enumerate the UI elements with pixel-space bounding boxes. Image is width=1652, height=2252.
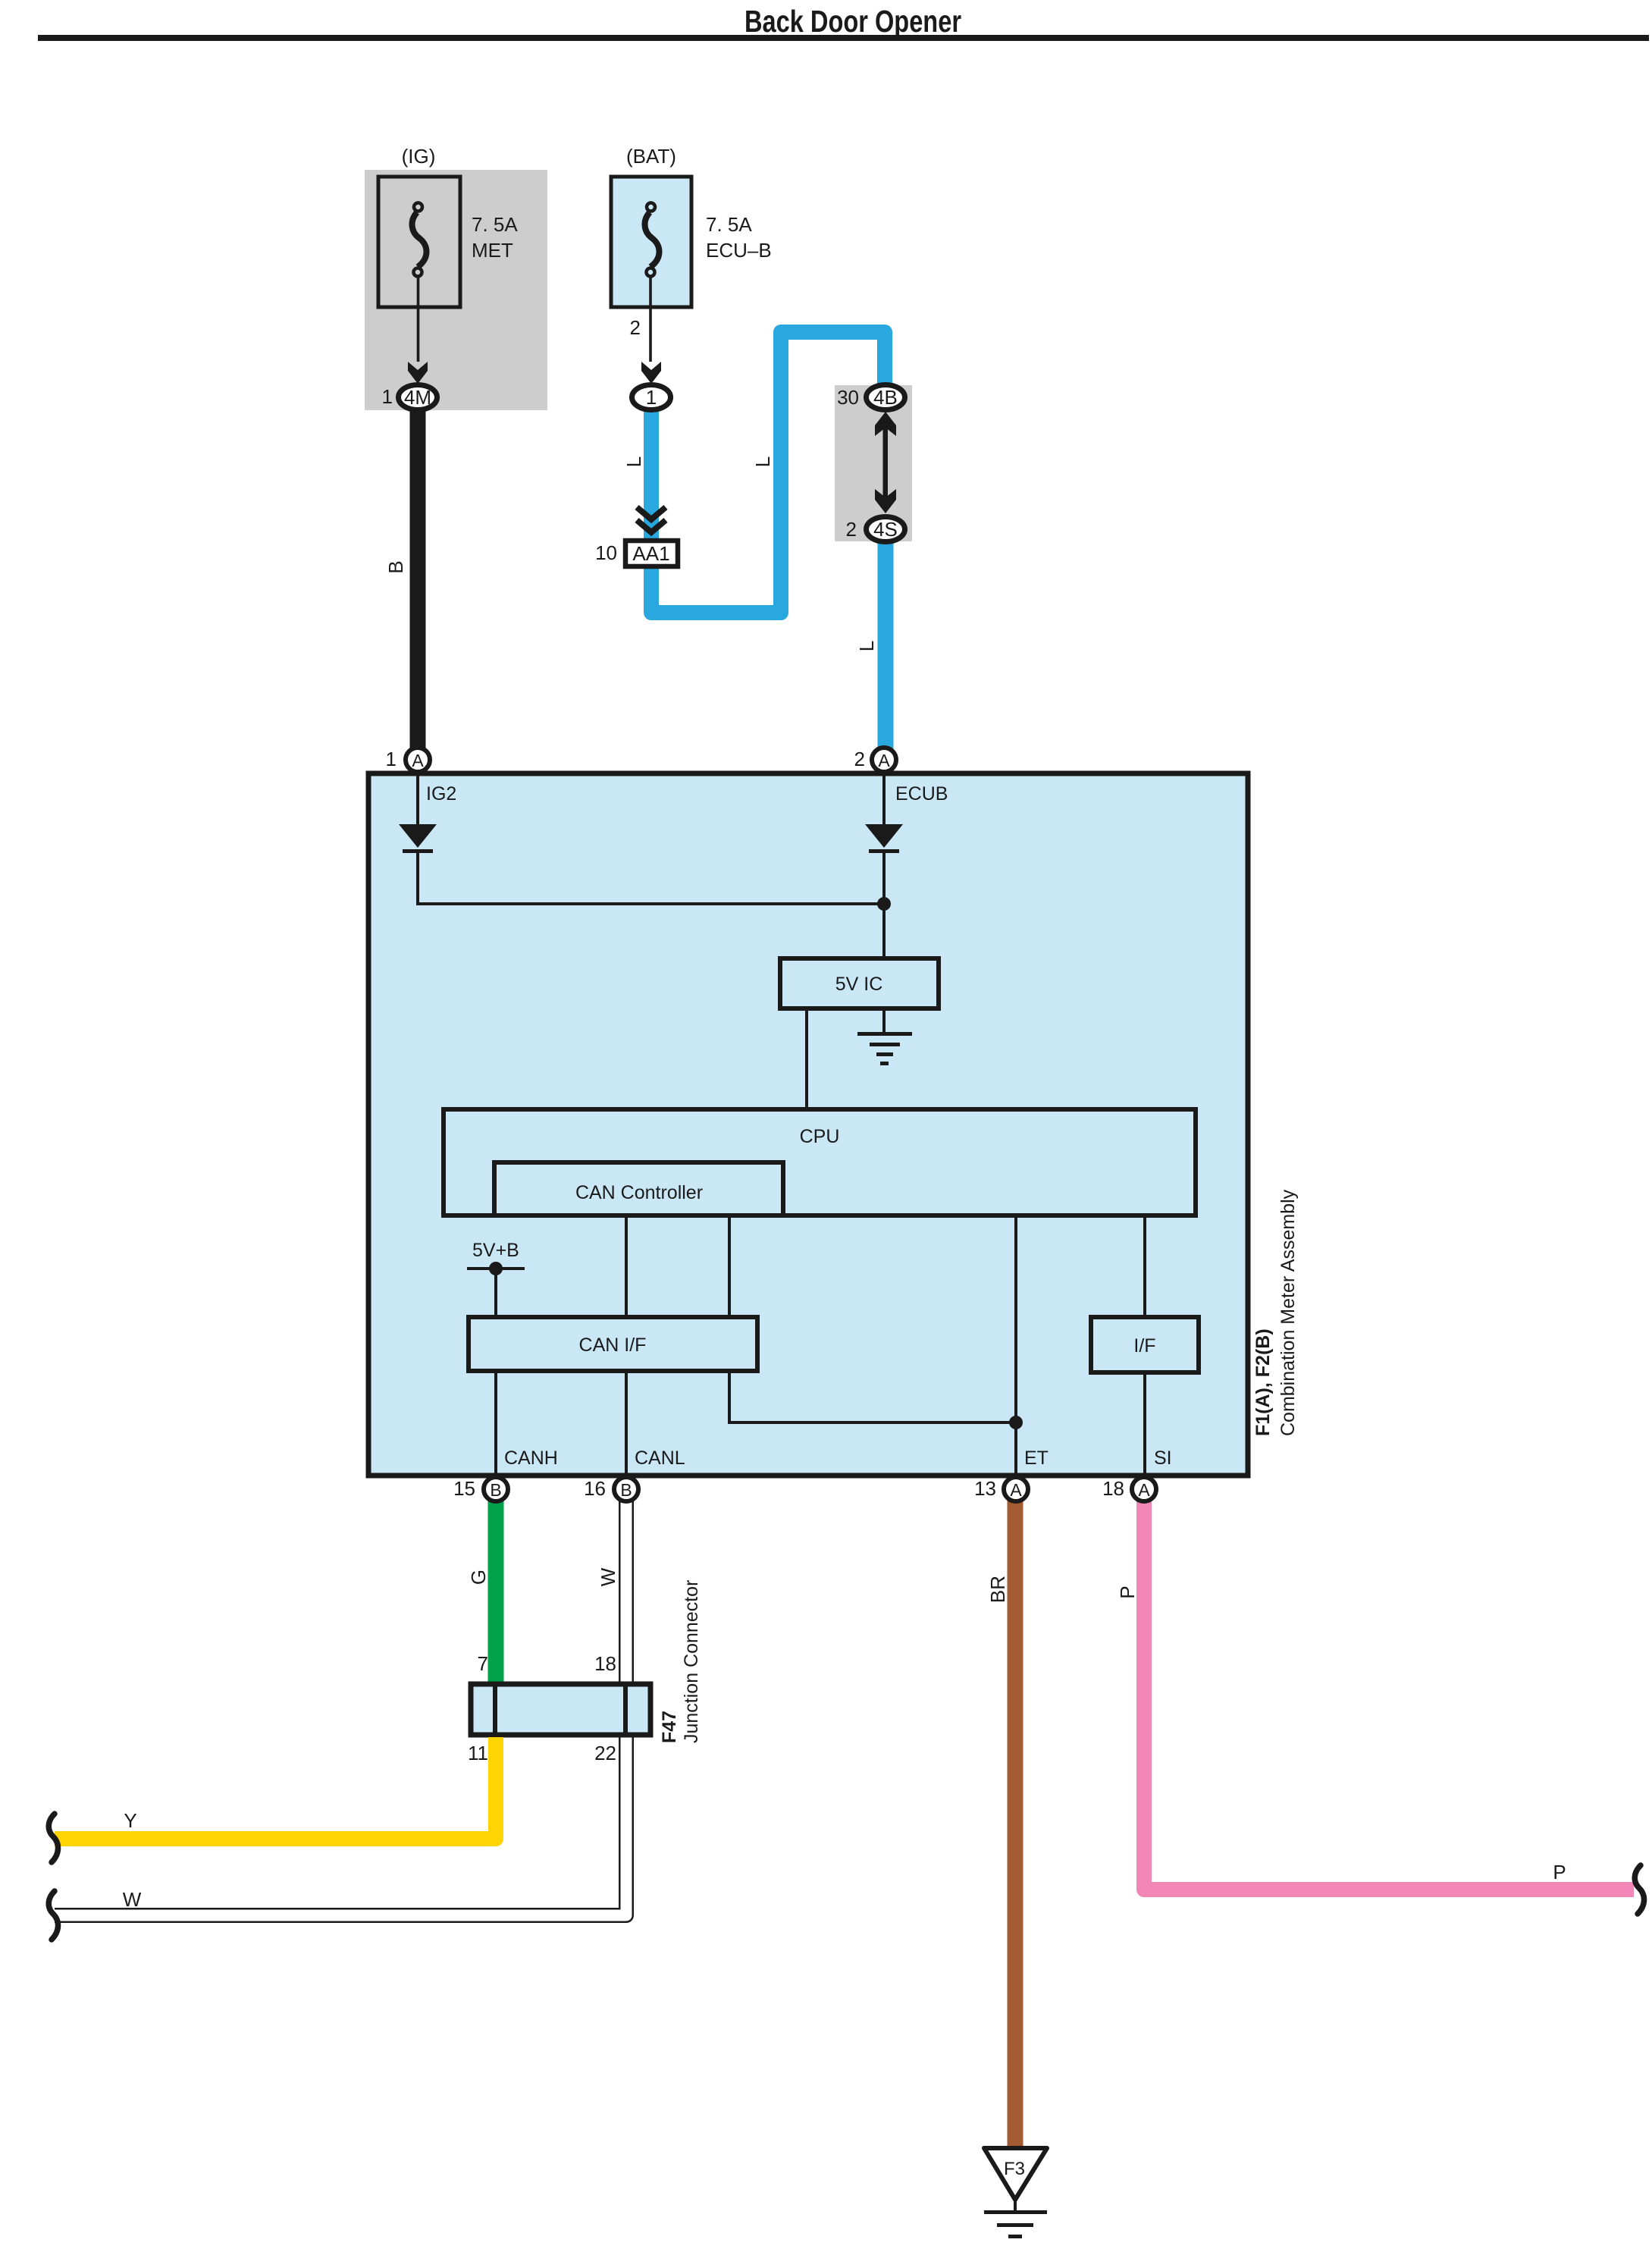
svg-text:A: A [1010, 1480, 1022, 1500]
ground (internal) [857, 1008, 912, 1065]
regulator 5V IC [780, 958, 939, 1008]
break squiggle W [49, 1891, 58, 1940]
node junction dot [877, 897, 891, 911]
wire CAN I/F to ET net [729, 1371, 1016, 1422]
svg-text:7. 5A: 7. 5A [706, 213, 752, 236]
svg-text:P: P [1553, 1861, 1566, 1883]
wire L (blue) fuse ECU-B to AA1 to 4B [651, 332, 885, 613]
connector pair 4B/4S arrows [875, 412, 896, 513]
CAN I/F box [469, 1317, 757, 1371]
svg-text:22: 22 [594, 1742, 616, 1764]
wire Y (yellow) F47 to left [55, 1737, 496, 1839]
wire P (pink) pin18 to right [1144, 1498, 1634, 1890]
svg-text:18: 18 [1102, 1477, 1124, 1500]
wire CANL internal [625, 1371, 628, 1475]
wire 5V IC to CPU [805, 1008, 808, 1109]
svg-text:L: L [622, 456, 645, 467]
svg-text:IG2: IG2 [426, 783, 456, 805]
svg-text:2: 2 [630, 316, 641, 339]
wire B (black) from 4M to pin 1A [410, 409, 426, 751]
wire ECUB internal [882, 773, 886, 958]
svg-text:15: 15 [453, 1477, 475, 1500]
svg-text:18: 18 [594, 1652, 616, 1675]
wire SI internal [1143, 1372, 1146, 1475]
double chevron (harness splice) [637, 507, 666, 532]
svg-text:5V+B: 5V+B [472, 1240, 519, 1261]
svg-text:7: 7 [478, 1652, 488, 1675]
svg-text:ECU–B: ECU–B [706, 239, 772, 262]
svg-text:B: B [490, 1480, 501, 1500]
break squiggle P [1635, 1865, 1644, 1914]
svg-text:F3: F3 [1004, 2159, 1025, 2179]
svg-text:2: 2 [854, 748, 865, 770]
svg-text:10: 10 [595, 541, 617, 564]
svg-text:I/F: I/F [1133, 1335, 1155, 1357]
wire CANctrl to CAN I/F right [728, 1215, 731, 1317]
svg-text:11: 11 [468, 1742, 488, 1764]
wire IG2 internal [418, 773, 884, 904]
svg-text:L: L [855, 641, 878, 651]
svg-text:W: W [123, 1888, 142, 1911]
svg-text:F1(A), F2(B): F1(A), F2(B) [1252, 1328, 1274, 1436]
pin 2 A [854, 748, 896, 772]
svg-text:CANH: CANH [504, 1447, 558, 1469]
svg-text:CAN I/F: CAN I/F [579, 1335, 647, 1356]
CAN Controller box [494, 1162, 783, 1215]
wire CANH internal [494, 1371, 497, 1475]
svg-text:Junction Connector: Junction Connector [681, 1580, 702, 1743]
svg-text:P: P [1116, 1585, 1139, 1598]
svg-text:1: 1 [386, 748, 397, 770]
connector 4M [382, 385, 437, 410]
svg-text:CANL: CANL [635, 1447, 685, 1469]
svg-text:CPU: CPU [800, 1126, 840, 1147]
svg-text:4M: 4M [404, 386, 431, 409]
net 5V+B [467, 1240, 525, 1317]
svg-text:AA1: AA1 [632, 542, 669, 565]
svg-text:2: 2 [846, 518, 857, 541]
svg-text:ET: ET [1024, 1447, 1049, 1469]
wire L (blue) from 4S to pin 2A [878, 540, 894, 751]
svg-text:1: 1 [646, 386, 657, 409]
connector 1 [632, 385, 671, 410]
svg-text:W: W [597, 1567, 619, 1586]
diode D1 [399, 824, 437, 853]
svg-text:A: A [412, 751, 424, 770]
ground F3 [984, 2148, 1047, 2238]
svg-text:BR: BR [986, 1576, 1009, 1603]
svg-text:B: B [384, 560, 407, 573]
combination meter assembly box [368, 773, 1248, 1476]
diode D2 [865, 824, 903, 853]
svg-text:Combination Meter Assembly: Combination Meter Assembly [1277, 1189, 1299, 1436]
pin 16 B [584, 1477, 638, 1501]
fuse ECU-B 7.5A (BAT) [611, 145, 772, 384]
svg-text:(BAT): (BAT) [626, 145, 676, 168]
svg-text:1: 1 [382, 385, 393, 408]
wire CPU to I/F [1143, 1215, 1146, 1317]
svg-text:(IG): (IG) [402, 145, 436, 168]
svg-text:16: 16 [584, 1477, 606, 1500]
svg-text:4S: 4S [873, 518, 898, 541]
wire CPU to ET [1014, 1215, 1017, 1475]
node ET junction dot [1009, 1416, 1023, 1429]
svg-text:7. 5A: 7. 5A [472, 213, 518, 236]
svg-text:A: A [878, 751, 890, 770]
wire CANctrl to CAN I/F left [625, 1215, 628, 1317]
svg-text:30: 30 [837, 386, 859, 409]
fuse MET 7.5A (IG) [378, 145, 518, 384]
pin 18 A [1102, 1477, 1156, 1501]
connector 4S [846, 517, 905, 542]
svg-text:B: B [620, 1480, 632, 1500]
svg-text:4B: 4B [873, 386, 898, 409]
pin 15 B [453, 1477, 508, 1501]
gray panel (4B/4S connector) [835, 385, 912, 541]
svg-text:CAN Controller: CAN Controller [575, 1182, 703, 1203]
I/F box [1091, 1317, 1199, 1372]
svg-text:5V IC: 5V IC [835, 974, 883, 995]
wire BR (brown) pin13 to ground [1008, 1498, 1023, 2150]
svg-text:Y: Y [124, 1809, 136, 1832]
svg-text:L: L [751, 456, 774, 467]
pin 1 A [386, 748, 430, 772]
break squiggle Y [49, 1814, 58, 1862]
wire G (green) pin15 to F47 [488, 1498, 504, 1682]
svg-text:SI: SI [1154, 1447, 1172, 1469]
svg-text:13: 13 [974, 1477, 996, 1500]
junction connector F47 [468, 1580, 702, 1764]
svg-text:ECUB: ECUB [895, 783, 948, 805]
wire W (white) pin16 to F47 to left [52, 1498, 626, 1915]
svg-text:F47: F47 [659, 1711, 680, 1743]
svg-text:MET: MET [472, 239, 513, 262]
svg-text:Back Door Opener: Back Door Opener [744, 4, 961, 39]
connector AA1 [595, 541, 678, 566]
connector 4B [837, 385, 904, 410]
svg-text:A: A [1138, 1480, 1150, 1500]
svg-text:G: G [467, 1570, 490, 1585]
gray panel (IG fuse block) [365, 170, 547, 410]
title rule [38, 35, 1649, 41]
CPU box [444, 1109, 1196, 1215]
pin 13 A [974, 1477, 1028, 1501]
